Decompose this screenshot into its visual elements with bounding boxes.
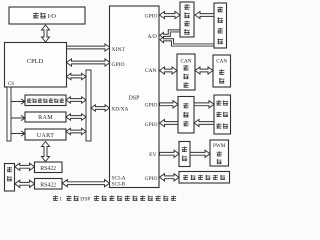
bus: XD/XA data-address bus pipe bbox=[86, 70, 91, 141]
box: UART bbox=[25, 129, 66, 140]
wire: vertical double arrow 扩展I/O ↔ CPLD bbox=[42, 25, 50, 42]
wire: 多路选择 → A/D hook bbox=[160, 30, 180, 38]
svg-text:RS422: RS422 bbox=[40, 166, 56, 172]
svg-text:RAM: RAM bbox=[38, 115, 53, 121]
wire: RAM ↔ bus double arrow bbox=[66, 114, 86, 120]
wire: DSP CAN ↔ CAN收发器 double arrow bbox=[160, 67, 178, 74]
box: auxiliary circuits (辅助功能电路) bbox=[179, 172, 230, 184]
wire: 缓冲器 → DSP GPIO arrow bbox=[160, 119, 179, 126]
svg-text:SCI-B: SCI-B bbox=[112, 182, 126, 188]
box: analog input (模拟输入) bbox=[214, 3, 227, 48]
wire: 数字输入输出 → 缓冲器 arrow bbox=[194, 119, 214, 126]
wire: 光隔 → PWM输出 arrow bbox=[190, 150, 210, 157]
svg-text:XD/XA: XD/XA bbox=[111, 107, 128, 113]
box: RAM bbox=[25, 112, 66, 122]
wire: 模拟输入 → 多路选择 arrow bbox=[195, 11, 214, 18]
wire: UART ↔ bus double arrow bbox=[66, 128, 86, 134]
svg-text:GPIO: GPIO bbox=[145, 102, 158, 108]
svg-text:GPIO: GPIO bbox=[145, 176, 158, 182]
wire: DSP GPIO → 缓冲器 arrow bbox=[160, 101, 179, 108]
svg-text:CAN: CAN bbox=[181, 58, 192, 64]
box: multiplexer (多路选择) bbox=[180, 2, 194, 37]
wire: DSP GPIO ↔ 多路选择 double arrow bbox=[160, 11, 181, 18]
svg-text:SCI-A: SCI-A bbox=[112, 175, 126, 181]
svg-text:EV: EV bbox=[149, 152, 156, 158]
svg-text:PWM: PWM bbox=[213, 143, 226, 149]
wire: DSP GPIO ↔ 辅助功能电路 double arrow bbox=[160, 174, 180, 181]
svg-text:DSP: DSP bbox=[128, 95, 140, 101]
svg-text:UART: UART bbox=[37, 133, 55, 139]
svg-text:A/D: A/D bbox=[148, 34, 158, 40]
box: RS422 transceiver #1 bbox=[35, 162, 63, 173]
box: RS422 transceiver #2 bbox=[35, 179, 63, 190]
wire: bus ↔ DSP XD/XA double arrow bbox=[91, 105, 110, 111]
wire: CPLD ↔ bus double arrow bbox=[67, 73, 87, 79]
wire: CS to non-volatile memory bbox=[11, 99, 25, 104]
wire: UART ↕ RS422 vertical double arrow bbox=[42, 142, 50, 162]
wire: RS422#2 ↔ DSP SCI double arrow bbox=[62, 180, 109, 187]
box: CAN bus (CAN总线) bbox=[213, 55, 231, 87]
svg-text:GPIO: GPIO bbox=[112, 62, 125, 68]
wire: CPLD ↔ DSP GPIO double arrow bbox=[67, 59, 111, 66]
svg-text:RS422: RS422 bbox=[40, 182, 56, 188]
box: non-volatile memory (非易失性存储器) bbox=[25, 95, 66, 106]
box: opto-isolator (光隔) bbox=[179, 142, 190, 167]
CPLD U1 bbox=[5, 43, 67, 88]
box: expansion I/O (扩展I/O) bbox=[9, 7, 85, 24]
svg-text:CPLD: CPLD bbox=[27, 58, 44, 65]
wire: CS to RAM bbox=[11, 115, 25, 120]
svg-text:GPIO: GPIO bbox=[145, 13, 158, 19]
wire: 模拟输入 → A/D hook bbox=[160, 37, 214, 46]
box: serial port (串口) bbox=[5, 164, 15, 192]
wire: 缓冲器 → 数字输入输出 arrow bbox=[194, 101, 214, 108]
box: buffer (缓冲器) bbox=[178, 97, 194, 134]
wire: CPLD to DSP XINT arrow bbox=[67, 44, 111, 51]
bus: CS select pipe bbox=[7, 87, 11, 141]
wire: 串口 ↔ RS422#1 double arrow bbox=[15, 163, 35, 170]
svg-text:1: 1 bbox=[59, 196, 62, 202]
wire: 串口 ↔ RS422#2 double arrow bbox=[15, 180, 35, 187]
svg-text:DSP: DSP bbox=[80, 196, 90, 202]
box: CAN transceiver (CAN收发器) bbox=[177, 54, 195, 90]
wire: DSP EV → 光隔 arrow bbox=[160, 150, 180, 157]
svg-text:XINT: XINT bbox=[112, 47, 126, 53]
svg-text:CAN: CAN bbox=[145, 68, 157, 74]
wire: memory ↔ bus double arrow bbox=[66, 97, 86, 103]
DSP U2 (TMS320 DSP) bbox=[110, 6, 160, 188]
box: digital I/O (数字输入输出) bbox=[214, 95, 231, 134]
svg-text:GPIO: GPIO bbox=[145, 122, 158, 128]
svg-text:CAN: CAN bbox=[216, 59, 227, 65]
box: PWM output (PWM输出) bbox=[210, 140, 229, 166]
svg-text:I/O: I/O bbox=[48, 13, 57, 20]
wire: CS to UART bbox=[11, 131, 25, 136]
caption: 图1 基于DSP的嵌入式系统的原理框图 bbox=[53, 196, 58, 201]
wire: CAN收发器 ↔ CAN总线 double arrow bbox=[195, 67, 213, 74]
svg-text:CS: CS bbox=[8, 82, 14, 87]
